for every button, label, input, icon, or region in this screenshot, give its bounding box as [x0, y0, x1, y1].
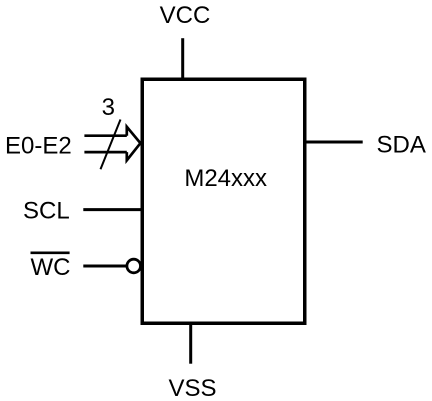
svg-text:VCC: VCC — [160, 2, 211, 29]
bus width slash — [101, 120, 121, 170]
svg-text:VSS: VSS — [168, 375, 216, 401]
svg-text:E0-E2: E0-E2 — [5, 132, 72, 159]
wire WC pin — [83, 265, 126, 268]
inversion bubble on WC pin — [127, 259, 141, 273]
overline of WC label — [31, 252, 70, 255]
bus E0-E2 shaft top line — [84, 134, 126, 137]
bus E0-E2 open arrowhead — [127, 127, 141, 161]
svg-text:M24xxx: M24xxx — [184, 165, 267, 192]
wire SCL pin — [83, 208, 143, 211]
wire VCC stub — [181, 38, 184, 79]
svg-text:SDA: SDA — [377, 132, 426, 159]
svg-text:3: 3 — [102, 94, 115, 121]
IC U1 M24xxx body — [142, 79, 305, 323]
svg-text:SCL: SCL — [23, 197, 70, 224]
wire SDA pin — [305, 141, 363, 144]
svg-text:WC: WC — [31, 254, 71, 281]
wire VSS stub — [189, 324, 192, 364]
bus E0-E2 shaft bottom line — [84, 151, 126, 154]
